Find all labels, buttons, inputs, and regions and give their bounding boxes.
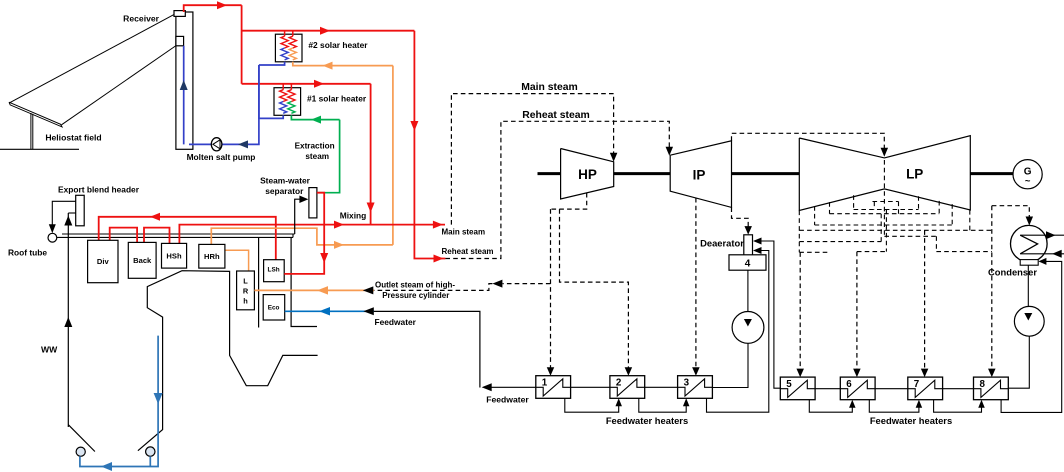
wire: extraction steam riser (green) bbox=[318, 120, 339, 193]
label Main steam (top) bbox=[521, 82, 578, 93]
furnace left hopper outline bbox=[68, 425, 95, 452]
export blend header vessel bbox=[76, 195, 85, 226]
svg-text:1: 1 bbox=[542, 378, 548, 389]
wire: WW riser to header bbox=[64, 213, 75, 427]
svg-text:Extraction: Extraction bbox=[295, 141, 335, 150]
furnace right and backpass outline bbox=[138, 271, 318, 451]
receiver panel cap bbox=[174, 11, 185, 17]
wire: extraction to heater 7 dashed bbox=[921, 230, 929, 377]
label Extraction steam bbox=[295, 141, 335, 161]
svg-text:HRh: HRh bbox=[204, 252, 220, 261]
condenser cooling water in bbox=[1020, 250, 1064, 258]
steam-water separator vessel bbox=[309, 188, 317, 218]
svg-text:Deaerator: Deaerator bbox=[700, 238, 744, 249]
wire: heater 8 drain to condenser bbox=[1001, 258, 1062, 413]
wire: #1 heater salt outlet (blue) bbox=[259, 65, 283, 118]
wire: IP-LP crossover dashed bbox=[732, 133, 889, 157]
heat exchanger: #2 solar heater bbox=[275, 31, 368, 62]
wire: feedwater heater string segments bbox=[571, 387, 974, 388]
feedwater heater 2 bbox=[610, 376, 645, 399]
wire: heater5 condensate to deaerator bbox=[753, 238, 780, 389]
wire: feedwater line from heater 1 (black) bbox=[374, 311, 480, 387]
svg-text:Reheat steam: Reheat steam bbox=[522, 110, 590, 121]
light beam upper edge bbox=[10, 14, 175, 102]
svg-text:WW: WW bbox=[41, 345, 58, 355]
wire: feed pump to heater 3 bbox=[712, 343, 748, 387]
svg-text:7: 7 bbox=[914, 379, 920, 390]
wire: IP exhaust to deaerator dashed bbox=[732, 207, 752, 234]
wire: molten salt to #2 solar heater (red) bbox=[242, 27, 415, 35]
svg-text:6: 6 bbox=[846, 379, 852, 390]
label Mixing bbox=[340, 210, 367, 220]
svg-text:Main steam: Main steam bbox=[521, 82, 578, 93]
feedwater heater 5 bbox=[780, 377, 815, 400]
svg-text:#1 solar heater: #1 solar heater bbox=[307, 94, 367, 104]
svg-text:Reheat steam: Reheat steam bbox=[442, 247, 494, 256]
wire: heater3 drain to deaerator bbox=[707, 247, 769, 412]
svg-text:Feedwater: Feedwater bbox=[486, 395, 529, 405]
wire: hot molten salt from receiver (red) bbox=[184, 1, 242, 12]
svg-text:Eco: Eco bbox=[268, 305, 280, 312]
heater 4 box bbox=[729, 255, 766, 270]
wire: LP exhaust to condenser dashed bbox=[992, 206, 1033, 226]
feedwater heater 6 bbox=[840, 377, 875, 400]
condenser circle bbox=[1011, 225, 1048, 262]
svg-text:4: 4 bbox=[745, 259, 751, 270]
svg-text:HSh: HSh bbox=[166, 252, 182, 261]
wire: Div-Back bridge (red) bbox=[110, 228, 137, 243]
label Molten salt pump bbox=[187, 152, 256, 162]
svg-text:Main steam: Main steam bbox=[442, 228, 486, 237]
svg-text:Feedwater heaters: Feedwater heaters bbox=[870, 415, 952, 426]
svg-text:3: 3 bbox=[684, 378, 690, 389]
svg-text:HP: HP bbox=[578, 167, 597, 182]
wire: heater5 drain to heater6 bbox=[809, 400, 855, 413]
label Export blend header bbox=[58, 185, 140, 195]
turbine shaft bbox=[538, 172, 1014, 175]
wire: HP exhaust stub dashed bbox=[551, 193, 587, 209]
wire: heater2 drain to heater3 bbox=[639, 398, 690, 412]
roof tube node bbox=[48, 233, 57, 242]
label Receiver bbox=[123, 14, 159, 24]
wire: reheat steam from HRh (orange) bbox=[211, 228, 393, 249]
label Deaerator bbox=[700, 238, 744, 249]
wire: molten salt riser in receiver (blue) bbox=[180, 46, 188, 145]
ground line under heliostat bbox=[0, 148, 79, 150]
label Condenser bbox=[988, 267, 1037, 278]
superheater HSh bbox=[162, 243, 187, 268]
wire: molten salt supply downcomer (red) bbox=[241, 5, 243, 84]
feedwater heater 1 bbox=[536, 376, 571, 399]
wire: header to roof tube node bbox=[49, 201, 76, 233]
wire: feedwater exit from heater 1 bbox=[482, 383, 536, 391]
label Feedwater heaters (right) bbox=[870, 415, 952, 426]
boiler drain circle left bbox=[76, 447, 85, 456]
reheater HRh bbox=[199, 244, 225, 268]
wire: cold reheat dashed to boiler bbox=[374, 280, 551, 291]
svg-text:LSh: LSh bbox=[268, 267, 280, 274]
arrow into blue feedwater line bbox=[363, 307, 374, 315]
label Steam-water separator bbox=[260, 175, 311, 196]
wire: boiler to separator (black) bbox=[295, 195, 309, 234]
label Reheat steam (small) bbox=[442, 247, 494, 256]
receiver panel lower block bbox=[176, 36, 184, 45]
wire: LP extraction mesh dashed bbox=[799, 160, 992, 252]
condensate pump bbox=[1014, 265, 1044, 336]
wire: right drain circle riser (blue) bbox=[149, 456, 151, 466]
svg-text:Feedwater: Feedwater bbox=[375, 317, 417, 327]
backpass wall 2 bbox=[291, 237, 317, 326]
svg-text:R: R bbox=[243, 287, 249, 296]
boiler roof double line bbox=[57, 234, 295, 237]
wire: reheat steam dashed to IP bbox=[445, 121, 673, 258]
wire: #2 heater steam out to reheat (red) bbox=[410, 31, 445, 263]
wire: Back-HSh bridge (red) bbox=[144, 228, 170, 244]
svg-text:IP: IP bbox=[693, 167, 706, 182]
wire: main steam from HSh (red) bbox=[179, 221, 445, 244]
svg-text:Heliostat field: Heliostat field bbox=[45, 133, 101, 143]
condenser cooling water out bbox=[1020, 231, 1064, 239]
superheater Back bbox=[128, 242, 156, 278]
wire: extraction to heater 8 dashed bbox=[988, 206, 996, 377]
feedwater heater 8 bbox=[974, 377, 1009, 400]
wire: feedwater to Eco (blue) bbox=[285, 307, 374, 316]
arrow into orange from dashed bbox=[363, 286, 374, 294]
svg-text:Back: Back bbox=[133, 256, 152, 265]
wire: cold molten salt return header (blue) bbox=[189, 65, 259, 148]
svg-text:h: h bbox=[243, 297, 248, 306]
label Feedwater (mid) bbox=[375, 317, 417, 327]
svg-text:L: L bbox=[243, 277, 248, 286]
wire: heater7 drain to heater8 bbox=[934, 400, 985, 413]
superheater Div bbox=[88, 240, 118, 282]
boiler drain circle right bbox=[146, 447, 155, 456]
wire: heater1 drain to heater2 bbox=[565, 398, 622, 412]
wire: #2 heater salt outlet (blue) bbox=[259, 62, 285, 65]
wire: extraction to heater 2 dashed bbox=[560, 209, 633, 376]
turbine LP (double flow) bbox=[799, 136, 970, 211]
receiver tower bbox=[176, 12, 193, 149]
label Feedwater heaters (left) bbox=[606, 415, 688, 426]
label Roof tube bbox=[8, 247, 47, 257]
wire: orange riser to #2 heater bbox=[392, 66, 394, 245]
wire: LSh to Div steam line (red) bbox=[99, 213, 276, 260]
wire: #1 heater extraction steam inlet (green) bbox=[291, 115, 339, 123]
svg-text:~: ~ bbox=[1025, 176, 1031, 187]
wire: extraction to heater 5 dashed bbox=[796, 252, 804, 377]
label Heliostat field bbox=[45, 133, 101, 143]
heat exchanger: #1 solar heater bbox=[274, 84, 367, 115]
wire: condensate pump to heater 8 bbox=[1008, 336, 1029, 388]
svg-text:2: 2 bbox=[616, 378, 622, 389]
wire: heater6 drain to heater7 bbox=[869, 400, 922, 413]
label Feedwater (bottom) bbox=[486, 395, 529, 405]
condenser coil zigzag bbox=[1020, 235, 1037, 254]
label Reheat steam (top) bbox=[522, 110, 590, 121]
condenser hotwell bbox=[1020, 260, 1038, 266]
svg-text:8: 8 bbox=[979, 379, 985, 390]
svg-text:Molten salt pump: Molten salt pump bbox=[187, 152, 256, 162]
economizer Eco bbox=[263, 295, 285, 320]
backpass wall 1 bbox=[258, 237, 260, 327]
wire: HP cylinder outlet steam to LRh (orange) bbox=[254, 286, 374, 295]
wire: extraction to heater 6 dashed bbox=[853, 252, 861, 378]
wire: furnace downcomer (blue) bbox=[80, 336, 163, 471]
svg-text:Steam-water: Steam-water bbox=[260, 175, 311, 185]
svg-text:Export blend header: Export blend header bbox=[58, 185, 140, 195]
boiler feed pump bbox=[732, 270, 764, 343]
label Main steam (small) bbox=[442, 228, 486, 237]
deaerator column bbox=[744, 235, 753, 256]
generator G bbox=[1013, 160, 1042, 189]
turbine HP bbox=[561, 149, 614, 200]
wire: #2 heater steam inlet (orange) bbox=[293, 62, 393, 70]
wire: molten salt to #1 solar heater (red) bbox=[242, 80, 371, 88]
label Outlet steam of high-Pressure cylinder bbox=[375, 281, 455, 300]
svg-text:Condenser: Condenser bbox=[988, 267, 1037, 278]
svg-text:5: 5 bbox=[786, 379, 792, 390]
svg-text:#2 solar heater: #2 solar heater bbox=[308, 40, 368, 50]
wire: LRh to HRh link (orange) bbox=[225, 250, 249, 271]
molten salt pump bbox=[211, 138, 222, 151]
feedwater heater 3 bbox=[678, 376, 713, 399]
heliostat pole bbox=[31, 113, 33, 149]
reheater LRh bbox=[237, 271, 255, 310]
svg-text:Receiver: Receiver bbox=[123, 14, 159, 24]
superheater LSh bbox=[264, 260, 285, 282]
svg-text:Roof tube: Roof tube bbox=[8, 247, 47, 257]
wire: extraction to heater 1 dashed bbox=[547, 209, 555, 376]
feedwater heater 7 bbox=[908, 377, 943, 400]
svg-text:separator: separator bbox=[265, 186, 304, 196]
wire: #1 heater steam out to mixing (red) bbox=[367, 84, 375, 225]
svg-text:steam: steam bbox=[305, 152, 329, 161]
heliostat mirror strip bbox=[9, 102, 62, 127]
light beam lower edge bbox=[62, 46, 177, 125]
svg-text:LP: LP bbox=[906, 167, 923, 182]
svg-text:Pressure cylinder: Pressure cylinder bbox=[382, 291, 449, 300]
wire: main steam dashed to HP bbox=[451, 94, 617, 225]
wire: extraction to heater 3 dashed bbox=[692, 198, 700, 376]
wire: separator steam to LSh (red) bbox=[284, 193, 328, 274]
svg-text:Outlet steam of high-: Outlet steam of high- bbox=[375, 281, 455, 290]
turbine IP bbox=[670, 141, 731, 208]
svg-text:Feedwater heaters: Feedwater heaters bbox=[606, 415, 688, 426]
label WW bbox=[41, 345, 58, 355]
svg-text:Div: Div bbox=[97, 257, 110, 266]
svg-text:Mixing: Mixing bbox=[340, 210, 367, 220]
